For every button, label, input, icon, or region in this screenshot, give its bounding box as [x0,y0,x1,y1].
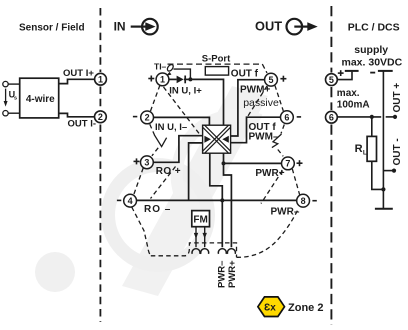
svg-text:Zone 2: Zone 2 [288,302,323,314]
plus sign terminal 3 [134,158,140,164]
svg-text:7: 7 [285,159,290,169]
supply plus pole bar [345,70,359,72]
svg-text:2: 2 [98,112,103,122]
svg-text:1: 1 [160,75,165,85]
minus sign terminal 4 [117,199,121,201]
svg-text:R: R [355,143,363,155]
FM arrow 2 [204,227,206,248]
svg-text:Sensor / Field: Sensor / Field [19,22,85,33]
OUT arrow symbol [287,19,318,35]
isolation zigzag right [272,134,282,148]
X-box arrow right [222,136,229,143]
wire 4-wire box to terminal 1 field [59,79,95,83]
field terminal 2 [95,111,107,123]
svg-text:PWR+: PWR+ [255,168,284,179]
PLC terminal 5 [326,74,338,86]
module terminal 1 [156,73,169,86]
junction node PWR+ [222,161,226,165]
minus sign terminal 8 [312,200,316,202]
junction node diode/TI [188,77,192,81]
internal dashed link to terminal 4 [151,167,176,199]
module outline dash terminal 6 to isolation zigzag [281,125,284,134]
module outline dash zigzag to terminal 7 [278,150,283,157]
boundary dashed line right (OUT | PLC/DCS) [330,6,332,325]
plus sign terminal 1 [148,76,154,82]
svg-text:L: L [363,150,367,157]
svg-text:max. 30VDC: max. 30VDC [342,56,403,68]
wire X-box bottom to PWR+ junction and terminal 7 [224,153,232,247]
watermark arc 2 [177,115,260,195]
module outline dash zigzag to terminal 3 [152,148,158,156]
svg-text:TI–: TI– [154,61,167,71]
wire RL top [371,117,373,136]
wire X-box left lower stub down to RO- rail [189,143,203,201]
module outline dash terminal 1 to 2 [150,85,160,111]
FM arrow 1 [195,227,197,248]
watermark disc [35,252,75,292]
sensor source circle bottom [3,111,8,116]
wire module terminal 2 to X-box top left stub [153,117,209,125]
svg-text:OUT: OUT [255,19,282,34]
wire PLC 6 to RL junction [337,116,381,118]
FM box [192,211,210,227]
minus sign supply [370,72,375,74]
minus sign terminal 6 [297,116,301,118]
module dashed outline corner to terminal 5 [262,64,267,73]
4-wire transducer box [20,78,59,118]
module terminal 6 [281,111,294,124]
internal dashed link terminal 7 down [261,171,283,204]
wire PLC 5 to supply plus pole [337,72,352,80]
svg-text:6: 6 [284,112,289,122]
module outline dash terminal 4 to bottom [132,207,151,256]
field terminal 1 [95,73,107,85]
Us voltage arrow [5,89,7,102]
wire module terminal 6 to X-box right lower stub [231,117,281,143]
watermark band [122,86,268,296]
wire 4-wire box to terminal 2 field [59,113,95,116]
node OUT+ [393,115,397,119]
TI jumper wire [174,69,191,79]
svg-text:PWR–: PWR– [271,207,300,218]
internal dashed link terminal 5 to OUT f wire [247,86,267,118]
PLC terminal 6 [326,111,338,123]
plus sign terminal 5 [280,76,286,82]
svg-text:S-Port: S-Port [202,53,231,64]
svg-text:PWM+: PWM+ [240,84,270,95]
svg-text:PWM–: PWM– [249,132,279,143]
S-Port box [205,67,228,76]
module outline bottom with service bump [151,243,237,257]
module outline dash terminal 2 to isolation zigzag [150,124,155,135]
OUT- tap wire [383,170,393,172]
junction node RL bottom on rail [381,187,385,191]
sensor source circle top [3,81,8,86]
module terminal 4 [124,194,137,207]
FM fork contact 2 [201,249,209,254]
internal dashed link terminal 1 to isolator [164,87,202,136]
module terminal 8 [297,194,310,207]
diode D1 [177,76,184,84]
module outline dash terminal 3 to 4 [134,168,143,195]
plus sign terminal 7 [297,160,303,166]
svg-text:OUT +: OUT + [392,83,403,113]
wire module terminal 4 to terminal 8 [136,199,297,201]
module outline dash terminal 5 to 6 [275,85,283,111]
TI arrow to terminal 1 [166,72,172,76]
svg-text:OUT I-: OUT I- [68,119,97,130]
supply bottom bar [375,208,393,210]
svg-text:IN: IN [114,19,126,33]
svg-text:IN U, I–: IN U, I– [155,122,187,133]
svg-text:IN U, I+: IN U, I+ [169,86,202,97]
wire junction to module terminal 7 [224,162,282,164]
svg-text:passive: passive [243,97,279,109]
svg-text:100mA: 100mA [337,100,370,111]
minus sign terminal 2 [133,116,137,118]
svg-text:3: 3 [144,158,149,168]
junction node PWR- / RO- rail [220,198,224,202]
supply minus rail [382,71,384,209]
svg-text:supply: supply [354,44,388,56]
svg-text:PLC / DCS: PLC / DCS [348,22,400,34]
svg-text:RO –: RO – [144,204,171,215]
module dashed outline top edge [168,63,263,65]
plus sign supply [338,70,344,76]
wire X-box bottom to PWR- rail [210,153,223,247]
TI jumper flag [166,63,174,72]
module outline dash terminal 7 to 8 [292,169,299,195]
node OUT- [392,169,396,173]
svg-text:6: 6 [329,112,334,122]
module terminal 5 [265,73,278,86]
svg-text:OUT -: OUT - [392,138,403,165]
boundary dashed line left (Sensor/Field | IN) [99,8,101,322]
isolation zigzag left [154,135,166,147]
svg-text:FM: FM [193,215,207,226]
X-box arrow left [204,136,211,143]
module terminal 7 [282,157,295,170]
svg-text:max.: max. [337,88,360,99]
IN arrow symbol [131,19,158,35]
svg-text:OUT I+: OUT I+ [63,68,94,79]
svg-text:PWR–: PWR– [216,261,227,288]
Ex hexagon logo [258,297,285,317]
module terminal 2 [141,111,154,124]
PWR fork contact 2 [227,249,235,254]
wire RL bottom to rail [372,161,384,189]
svg-text:s: s [14,96,17,102]
module outline dash bottom to terminal 8 [237,208,299,258]
svg-text:1: 1 [98,74,103,84]
wire crossing rail to OUT+ point [386,116,394,118]
svg-text:2: 2 [145,113,150,123]
wire module terminal 3 to X-box left upper stub [153,136,203,163]
svg-text:OUT f: OUT f [231,69,259,80]
svg-text:4: 4 [128,196,133,206]
svg-text:5: 5 [268,75,273,85]
svg-text:8: 8 [301,196,306,206]
wire source bottom to 4-wire box [8,112,20,114]
wire junction to X-box top right stub [190,79,223,125]
svg-text:5: 5 [329,75,334,85]
svg-text:RO +: RO + [156,166,181,177]
wire source top to 4-wire box [8,83,20,85]
module terminal 3 [141,156,154,169]
svg-text:Ɛx: Ɛx [264,303,276,314]
wire module terminal 5 to X-box right upper stub [231,80,265,136]
PWR fork contact 1 [218,249,226,254]
FM fork contact 1 [192,249,200,254]
resistor RL [367,136,376,161]
svg-text:4-wire: 4-wire [26,94,55,105]
watermark arc [108,165,208,265]
junction node RL top [370,115,374,119]
supply minus pole bar [378,70,393,72]
X-box isolator [203,125,231,153]
wire terminal 1 to diode [169,78,177,80]
svg-text:PWR+: PWR+ [227,260,238,288]
